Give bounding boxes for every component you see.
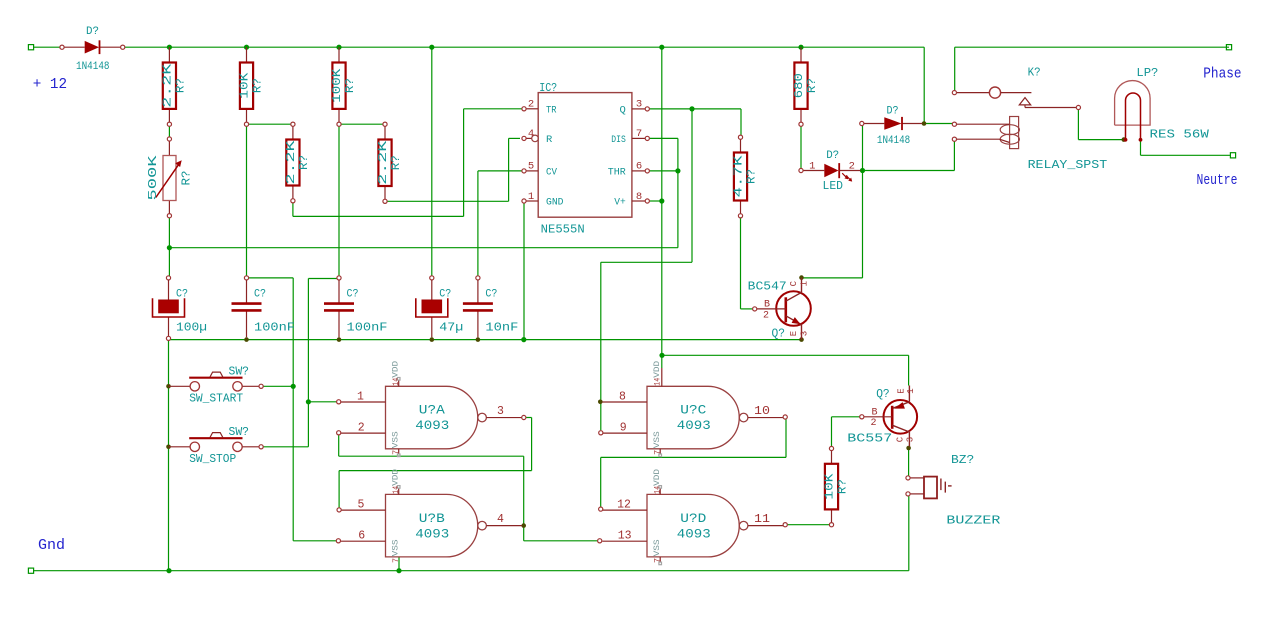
svg-text:3: 3 xyxy=(636,99,642,111)
svg-text:LED: LED xyxy=(823,180,844,193)
svg-text:RELAY_SPST: RELAY_SPST xyxy=(1028,158,1108,172)
svg-text:VSS: VSS xyxy=(391,431,401,448)
svg-text:GND: GND xyxy=(546,197,564,209)
svg-text:R?: R? xyxy=(389,155,403,170)
svg-text:R?: R? xyxy=(343,78,357,93)
svg-text:R?: R? xyxy=(836,479,850,494)
svg-text:7: 7 xyxy=(391,450,401,455)
svg-text:C?: C? xyxy=(347,289,359,301)
svg-text:2: 2 xyxy=(763,311,769,322)
svg-text:V+: V+ xyxy=(614,197,626,209)
svg-text:4.7K: 4.7K xyxy=(732,154,746,197)
svg-text:U?D: U?D xyxy=(680,511,706,526)
svg-text:14: 14 xyxy=(653,486,663,494)
svg-text:3: 3 xyxy=(800,331,810,336)
svg-text:100nF: 100nF xyxy=(347,321,388,334)
svg-text:4093: 4093 xyxy=(415,418,449,433)
svg-text:VSS: VSS xyxy=(391,539,401,556)
svg-text:4: 4 xyxy=(528,128,534,140)
svg-text:C?: C? xyxy=(439,289,451,301)
svg-text:R?: R? xyxy=(805,78,819,93)
svg-text:2.2K: 2.2K xyxy=(376,140,390,185)
svg-text:Q?: Q? xyxy=(876,387,890,401)
svg-text:C: C xyxy=(789,280,799,286)
svg-text:Gnd: Gnd xyxy=(38,537,65,554)
svg-text:14: 14 xyxy=(391,378,401,386)
svg-text:NE555N: NE555N xyxy=(541,223,585,237)
svg-text:1N4148: 1N4148 xyxy=(76,61,110,73)
svg-text:VSS: VSS xyxy=(652,431,662,448)
svg-text:2.2K: 2.2K xyxy=(160,62,174,107)
svg-text:VDD: VDD xyxy=(391,361,401,378)
svg-text:4093: 4093 xyxy=(415,526,449,541)
svg-text:THR: THR xyxy=(608,166,627,178)
svg-text:7: 7 xyxy=(636,128,642,140)
svg-text:12: 12 xyxy=(617,499,631,512)
svg-text:SW_STOP: SW_STOP xyxy=(189,453,236,466)
svg-text:BZ?: BZ? xyxy=(951,453,974,467)
svg-text:LP?: LP? xyxy=(1136,66,1158,80)
svg-text:RES 56W: RES 56W xyxy=(1150,127,1210,141)
svg-text:BC547: BC547 xyxy=(748,280,787,294)
svg-text:E: E xyxy=(897,388,907,393)
svg-text:1: 1 xyxy=(906,388,916,393)
svg-text:5: 5 xyxy=(528,161,534,173)
svg-text:1N4148: 1N4148 xyxy=(877,135,910,147)
svg-text:500K: 500K xyxy=(146,154,160,200)
svg-text:100nF: 100nF xyxy=(254,321,295,334)
svg-text:U?B: U?B xyxy=(419,511,445,526)
svg-text:7: 7 xyxy=(653,450,663,455)
svg-text:Q: Q xyxy=(619,104,625,116)
svg-text:R?: R? xyxy=(297,155,311,170)
svg-text:SW?: SW? xyxy=(229,426,250,439)
svg-text:BUZZER: BUZZER xyxy=(946,514,1000,528)
svg-text:Neutre: Neutre xyxy=(1197,173,1238,189)
svg-text:3: 3 xyxy=(497,405,504,418)
svg-text:47µ: 47µ xyxy=(439,321,463,334)
svg-text:CV: CV xyxy=(546,166,558,178)
svg-text:100µ: 100µ xyxy=(176,321,207,334)
svg-text:R?: R? xyxy=(251,78,265,93)
svg-text:680: 680 xyxy=(792,73,806,98)
svg-text:+ 12: + 12 xyxy=(33,76,67,93)
svg-text:100K: 100K xyxy=(330,68,344,103)
svg-text:U?A: U?A xyxy=(419,403,445,418)
svg-text:VDD: VDD xyxy=(652,469,662,486)
svg-text:1: 1 xyxy=(800,281,810,286)
svg-text:U?C: U?C xyxy=(680,403,706,418)
svg-text:SW?: SW? xyxy=(229,366,250,379)
svg-text:4093: 4093 xyxy=(677,418,711,433)
svg-text:10: 10 xyxy=(754,405,770,418)
svg-text:14: 14 xyxy=(653,378,663,386)
svg-text:K?: K? xyxy=(1028,65,1041,79)
svg-text:R?: R? xyxy=(745,169,759,184)
svg-text:10K: 10K xyxy=(238,72,252,99)
svg-text:6: 6 xyxy=(358,530,365,543)
svg-text:1: 1 xyxy=(528,191,534,203)
svg-text:VDD: VDD xyxy=(391,469,401,486)
svg-text:Q?: Q? xyxy=(772,327,786,341)
svg-text:BC557: BC557 xyxy=(847,432,892,446)
svg-text:E: E xyxy=(789,331,799,336)
svg-text:C: C xyxy=(896,436,906,442)
svg-text:C?: C? xyxy=(485,289,497,301)
svg-text:6: 6 xyxy=(636,161,642,173)
svg-text:R?: R? xyxy=(179,171,193,186)
svg-text:11: 11 xyxy=(754,513,770,526)
svg-text:TR: TR xyxy=(546,104,557,116)
svg-text:10nF: 10nF xyxy=(485,321,518,334)
svg-text:7: 7 xyxy=(653,558,663,563)
svg-text:10K: 10K xyxy=(823,473,837,500)
svg-text:2: 2 xyxy=(358,422,365,435)
svg-text:2: 2 xyxy=(849,160,855,172)
svg-text:5: 5 xyxy=(358,499,365,512)
svg-text:IC?: IC? xyxy=(539,81,557,95)
svg-text:VSS: VSS xyxy=(652,539,662,556)
svg-text:4093: 4093 xyxy=(677,526,711,541)
svg-text:2: 2 xyxy=(528,99,534,111)
svg-text:4: 4 xyxy=(497,513,504,526)
svg-text:R: R xyxy=(546,134,553,146)
svg-text:8: 8 xyxy=(636,191,642,203)
svg-text:2.2K: 2.2K xyxy=(284,139,298,184)
svg-text:D?: D? xyxy=(826,150,839,162)
svg-text:8: 8 xyxy=(619,390,626,403)
svg-text:VDD: VDD xyxy=(652,361,662,378)
svg-text:B: B xyxy=(764,300,770,311)
svg-text:1: 1 xyxy=(809,160,815,172)
svg-text:C?: C? xyxy=(254,289,266,301)
svg-text:B: B xyxy=(872,408,878,419)
svg-text:2: 2 xyxy=(871,418,877,429)
svg-text:D?: D? xyxy=(887,105,899,117)
svg-text:SW_START: SW_START xyxy=(189,393,243,406)
svg-text:Phase: Phase xyxy=(1203,66,1241,82)
svg-text:14: 14 xyxy=(391,486,401,494)
svg-text:1: 1 xyxy=(357,390,364,403)
svg-text:C?: C? xyxy=(176,289,188,301)
svg-text:3: 3 xyxy=(906,437,916,442)
svg-text:DIS: DIS xyxy=(611,134,626,146)
svg-text:D?: D? xyxy=(86,26,99,38)
svg-text:9: 9 xyxy=(620,422,627,435)
svg-text:7: 7 xyxy=(391,558,401,563)
svg-text:13: 13 xyxy=(618,530,632,543)
svg-text:R?: R? xyxy=(173,78,187,93)
